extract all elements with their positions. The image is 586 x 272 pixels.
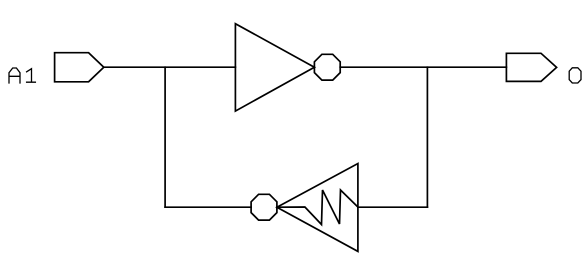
wire right vertical feedback	[426, 67, 428, 207]
bubble U1 output	[314, 54, 340, 80]
inverter U1	[235, 24, 314, 111]
label O	[569, 68, 581, 83]
wire bottom right	[358, 206, 428, 208]
weak feedback inverter U2	[277, 164, 358, 252]
label A1	[9, 68, 35, 83]
wire inverter output to output pin	[340, 66, 506, 68]
wire left vertical feedback	[164, 67, 166, 207]
input pin A1	[55, 53, 104, 82]
wire bottom left	[165, 206, 251, 208]
wire input to inverter	[104, 66, 236, 68]
resistor zigzag inside U2	[277, 190, 358, 225]
bubble U2 output	[251, 194, 277, 220]
output pin O	[506, 53, 556, 81]
